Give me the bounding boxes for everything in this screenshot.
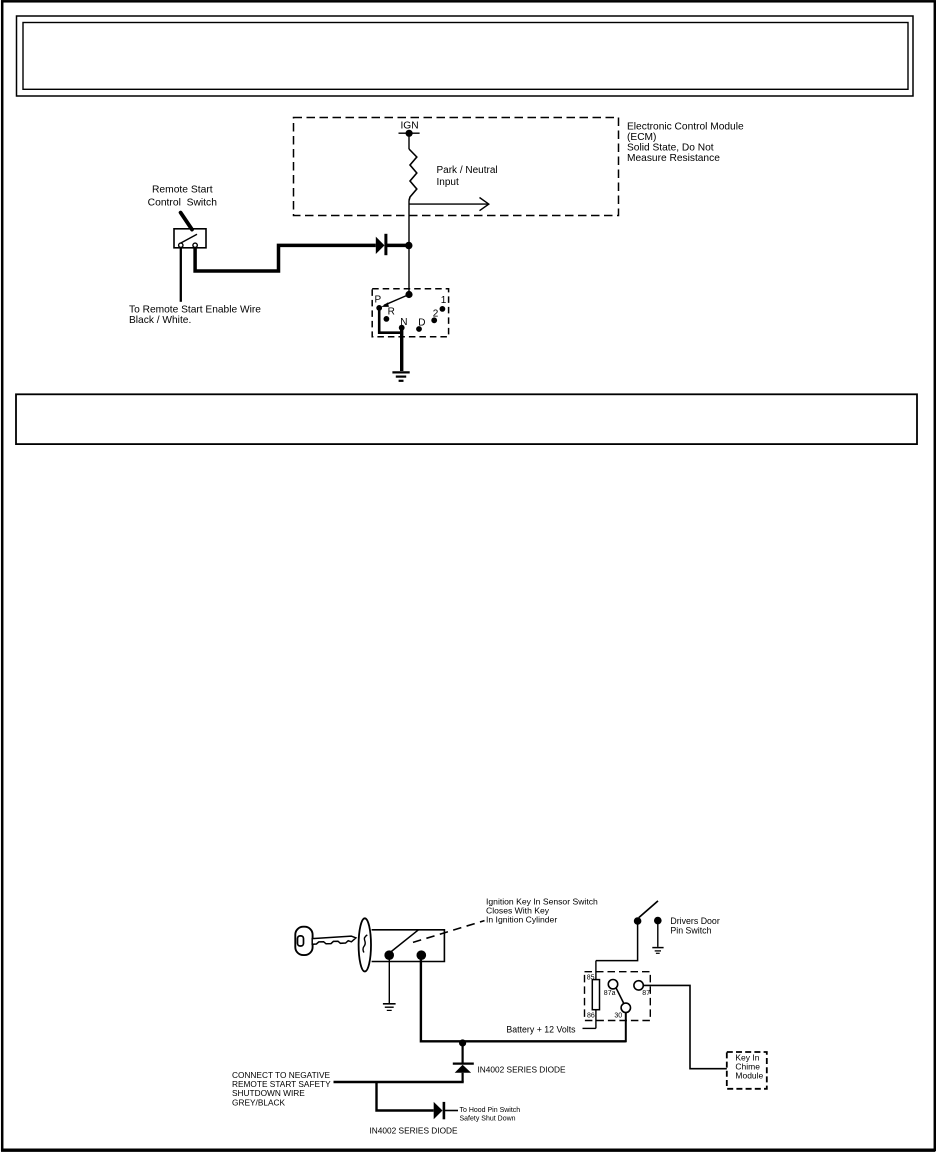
section divider box (16, 394, 917, 444)
key in chime module dashed box (727, 1052, 767, 1089)
ground symbol door switch (652, 948, 663, 954)
key blade (312, 936, 356, 944)
arrow park/neutral input signal (410, 203, 488, 205)
relay pin labels (587, 974, 650, 1019)
svg-text:D: D (418, 318, 425, 329)
label Ignition Key In Sensor Switch (486, 896, 598, 924)
dashed leader to ignition text (413, 921, 485, 943)
svg-text:Remote Start: Remote Start (152, 185, 213, 196)
relay contact 30 circle (621, 1003, 630, 1012)
title box outer (17, 16, 914, 96)
contact D dot (416, 326, 422, 332)
svg-text:Battery + 12 Volts: Battery + 12 Volts (506, 1024, 576, 1034)
node IGN terminal tick (399, 132, 420, 134)
ignition cylinder face ellipse (359, 918, 371, 971)
wire battery feed (583, 1027, 596, 1029)
title box inner (23, 23, 908, 90)
wire N contact to ground (400, 328, 403, 371)
PRND switch dashed box (372, 289, 448, 337)
contact R dot (384, 316, 390, 322)
wire relay 87 to chime module (643, 985, 727, 1068)
switch PRND selector arrowhead (381, 302, 389, 307)
diode D1 cathode bar (384, 234, 387, 255)
door switch contact left dot (634, 917, 642, 925)
ground symbol PRND (392, 372, 409, 380)
label Drivers Door Pin Switch (670, 916, 719, 935)
relay contact 87 circle (634, 981, 643, 990)
svg-text:1: 1 (441, 295, 447, 306)
svg-text:IN4002 SERIES DIODE: IN4002 SERIES DIODE (478, 1065, 567, 1075)
door switch contact right dot (654, 917, 662, 925)
switch S1 terminal right (193, 243, 197, 247)
switch S1 contact arm (180, 234, 197, 243)
key head (295, 927, 312, 955)
wire diode D3 out (444, 1110, 458, 1112)
wire resistor down to node (408, 201, 410, 295)
svg-text:R: R (388, 307, 395, 318)
relay coil (592, 980, 599, 1010)
svg-text:Park / Neutral: Park / Neutral (437, 165, 498, 176)
wire key switch right contact to relay 30 (421, 960, 626, 1042)
svg-text:Black / White.: Black / White. (129, 315, 191, 326)
key switch contact left dot (384, 950, 394, 960)
svg-text:Module: Module (735, 1071, 763, 1081)
resistor park/neutral pull-up (409, 149, 417, 201)
cylinder squiggle (363, 935, 367, 953)
svg-text:30: 30 (614, 1013, 622, 1020)
ECM dashed box (294, 118, 619, 216)
key switch arm (391, 930, 418, 952)
switch PRND selector arm (384, 295, 409, 306)
svg-text:87a: 87a (604, 990, 616, 997)
diode D3 cathode bar (443, 1102, 446, 1119)
switch S1 body box (174, 229, 206, 248)
ignition key switch body (372, 930, 445, 962)
door switch lever (639, 901, 658, 918)
svg-text:Electronic Control Module: Electronic Control Module (627, 122, 744, 133)
svg-text:GREY/BLACK: GREY/BLACK (232, 1097, 285, 1107)
wire switch left terminal to enable wire (180, 248, 182, 302)
wire diode D2 to shutdown bus (462, 1073, 464, 1082)
wire IGN to resistor (408, 133, 410, 149)
switch S1 terminal left (179, 243, 183, 247)
label Park / Neutral Input (437, 165, 498, 188)
switch S1 toggle lever (181, 213, 192, 230)
wire diode to node (386, 244, 406, 248)
svg-text:Control Switch: Control Switch (148, 198, 218, 209)
ECM label text (627, 122, 744, 165)
relay contact arm (616, 988, 624, 1004)
node junction dot PRND input (405, 291, 412, 298)
contact 1 dot (440, 306, 446, 312)
wire node to diode D2 (462, 1042, 464, 1063)
diode D1 anode triangle (376, 237, 385, 254)
label Key In Chime Module (735, 1053, 763, 1081)
svg-text:N: N (400, 317, 407, 328)
relay contact 87a circle (608, 980, 617, 989)
svg-text:2: 2 (433, 308, 439, 319)
label To Hood Pin Switch (460, 1107, 521, 1122)
svg-text:To Remote Start Enable Wire: To Remote Start Enable Wire (129, 305, 261, 316)
key head hole (298, 936, 304, 946)
svg-text:IN4002 SERIES DIODE: IN4002 SERIES DIODE (370, 1126, 459, 1136)
wire P contact to ground bus (379, 308, 402, 333)
node junction dot at diode (405, 242, 412, 249)
node IGN junction dot (406, 130, 413, 137)
contact 2 dot (431, 317, 437, 323)
contact P dot (376, 305, 382, 311)
wire door switch right to ground (657, 923, 659, 947)
diode D3 triangle (434, 1102, 443, 1119)
relay dashed box (585, 972, 651, 1021)
svg-text:(ECM): (ECM) (627, 132, 656, 143)
svg-text:Input: Input (437, 177, 459, 188)
svg-text:In Ignition Cylinder: In Ignition Cylinder (486, 914, 557, 924)
wire relay coil bottom pin 86 (595, 1010, 597, 1029)
wire key switch left contact to ground (388, 960, 390, 1004)
diode D2 triangle (455, 1065, 471, 1073)
key switch contact right dot (417, 950, 427, 960)
wire shutdown bus horizontal (334, 1081, 464, 1084)
ground symbol key switch (383, 1004, 396, 1011)
wire relay 30 down (625, 1013, 627, 1043)
diode D2 cathode bar (453, 1062, 474, 1064)
node junction dot shutdown tap (459, 1039, 466, 1046)
svg-text:Safety Shut Down: Safety Shut Down (460, 1115, 516, 1122)
svg-text:86: 86 (587, 1013, 595, 1020)
wire switch right terminal to diode (195, 245, 376, 271)
svg-text:To Hood Pin Switch: To Hood Pin Switch (460, 1107, 521, 1114)
label To Remote Start Enable Wire (129, 305, 261, 327)
label CONNECT TO NEGATIVE block (232, 1070, 331, 1108)
svg-text:87: 87 (642, 990, 650, 997)
contact N dot (399, 325, 405, 331)
wire shutdown bus to hood diode (377, 1082, 434, 1111)
label Remote Start Control Switch (148, 185, 218, 209)
svg-text:Solid State, Do Not: Solid State, Do Not (627, 143, 714, 154)
svg-text:P: P (375, 295, 382, 306)
wire relay coil top pin 85 (595, 961, 597, 980)
svg-text:Pin Switch: Pin Switch (670, 925, 711, 935)
labels P R N D 1 2 (375, 295, 447, 329)
svg-text:Measure Resistance: Measure Resistance (627, 153, 720, 164)
wire door switch to relay coil (596, 923, 638, 961)
